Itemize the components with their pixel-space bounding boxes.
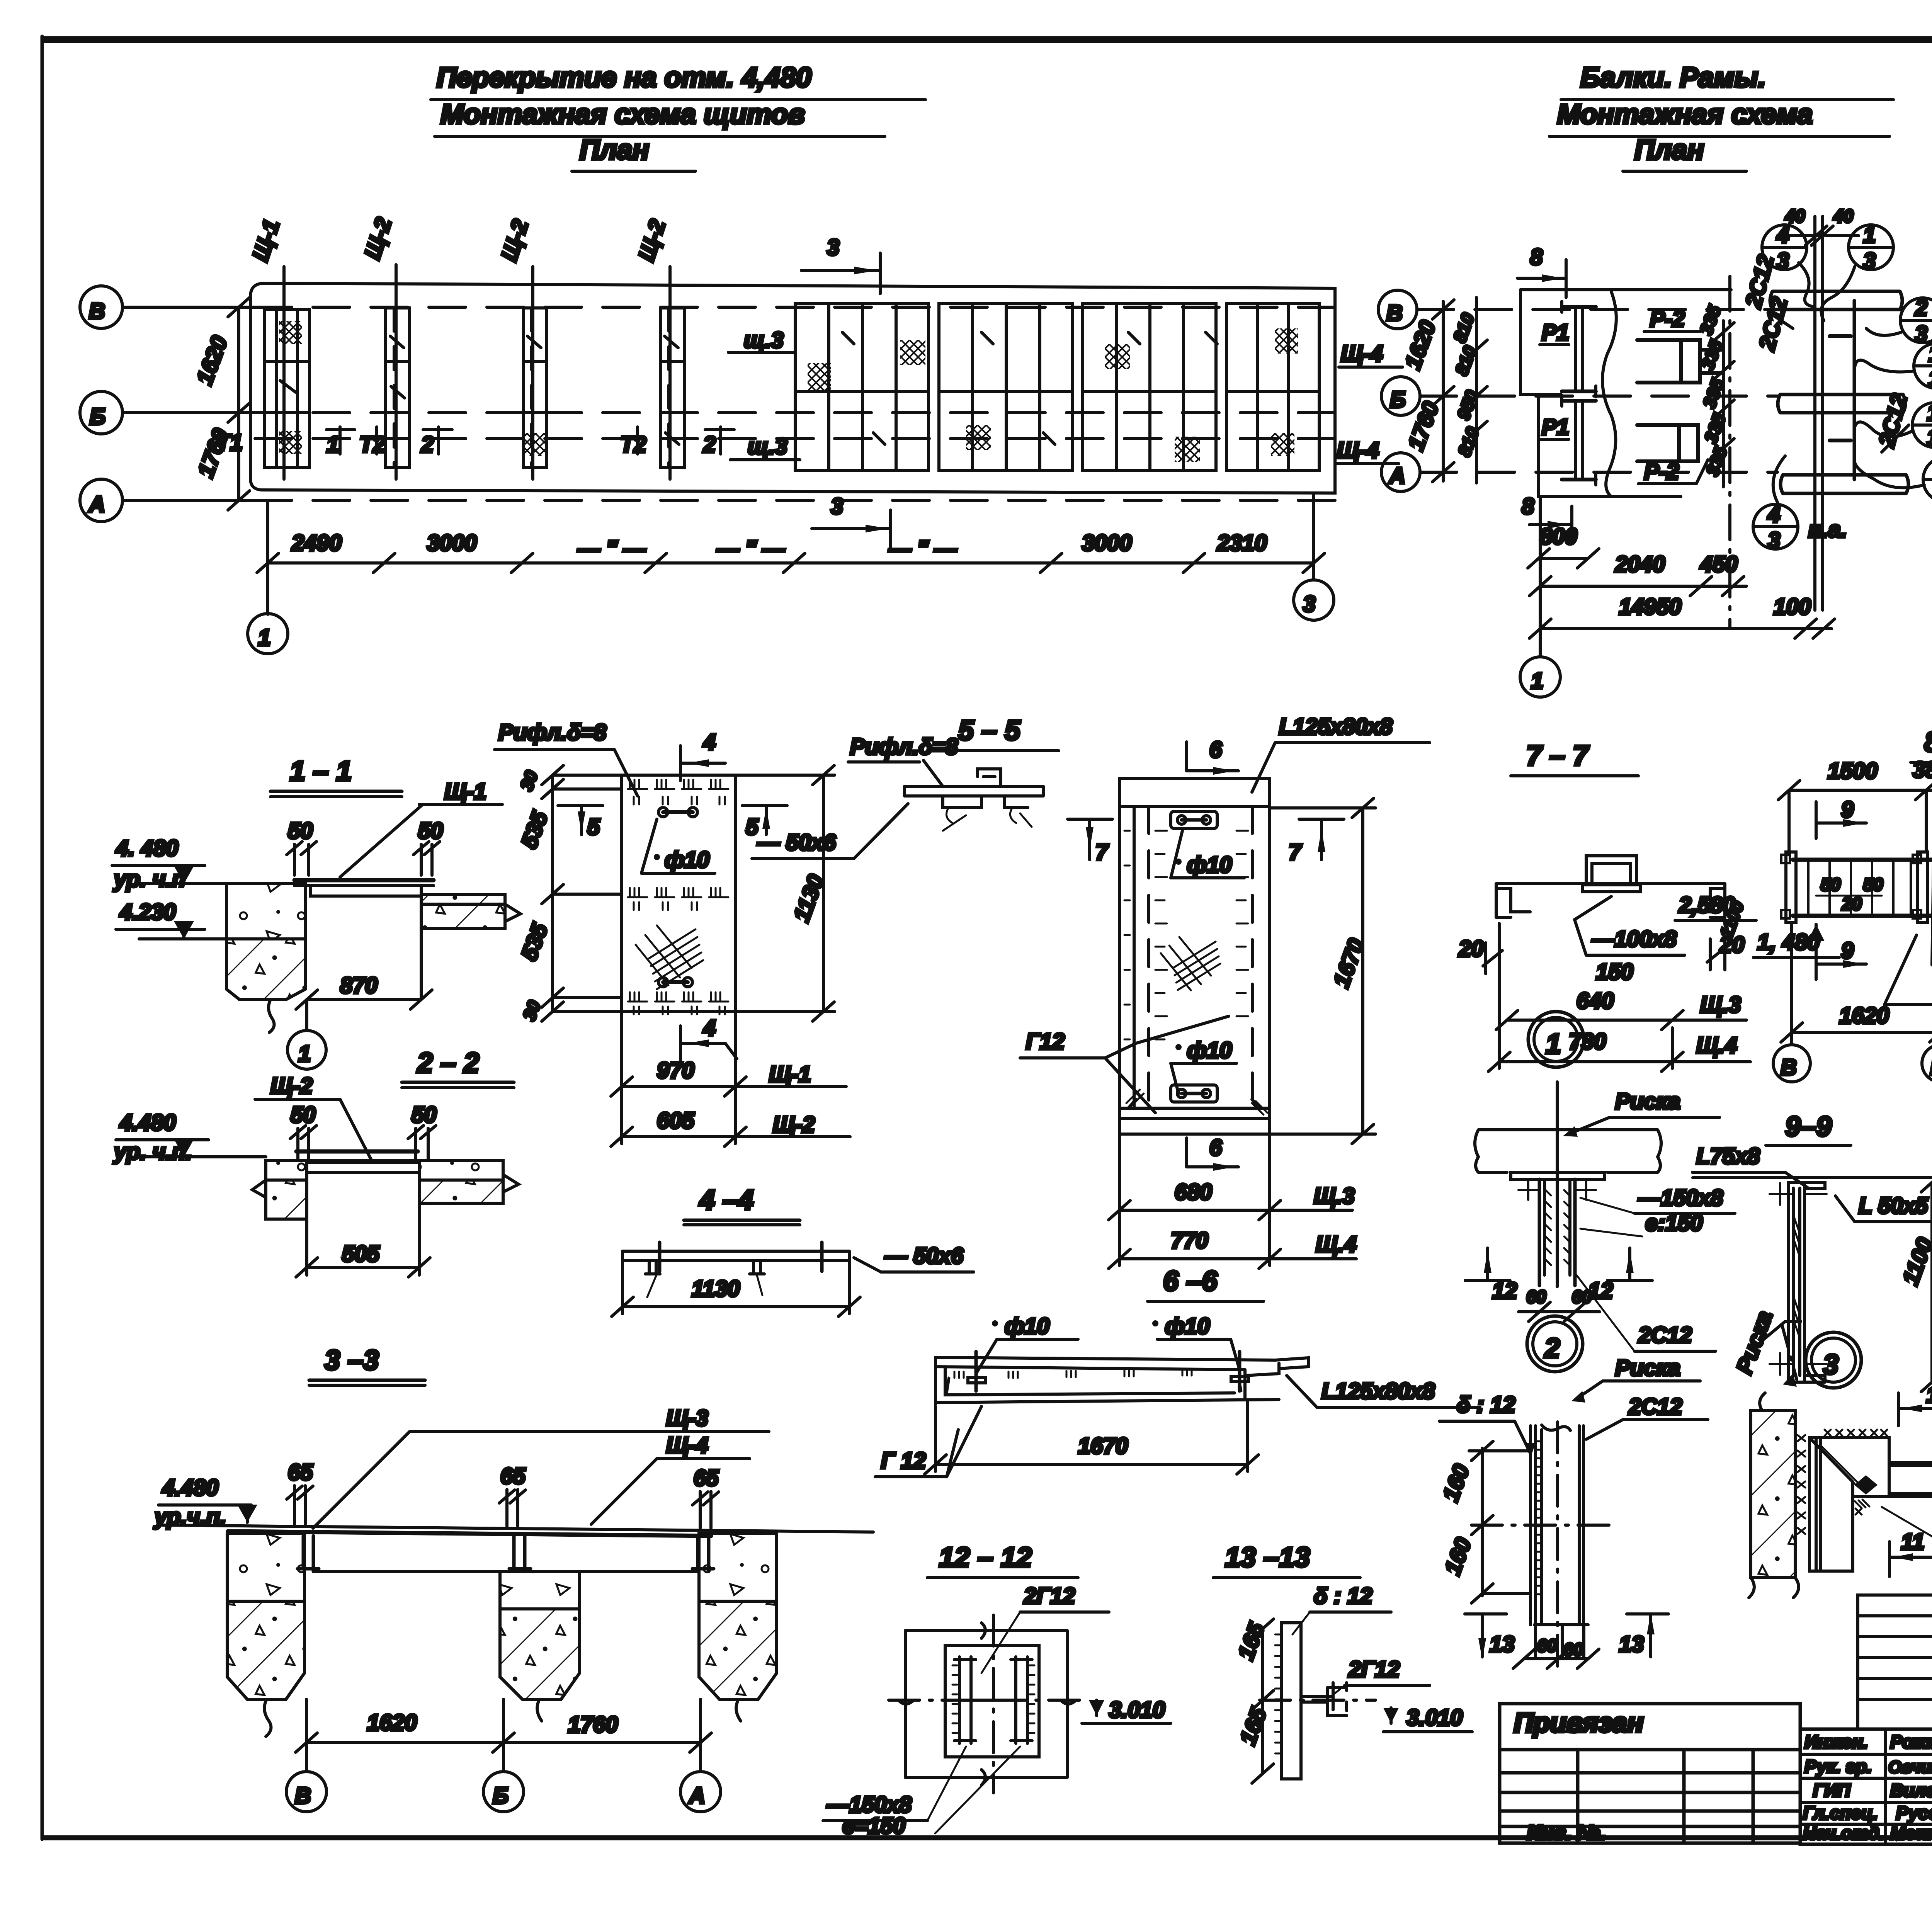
svg-text:165: 165 — [1235, 1704, 1271, 1748]
svg-text:δ : 12: δ : 12 — [1314, 1583, 1372, 1609]
vertical center line — [1556, 1082, 1559, 1287]
svg-text:В: В — [89, 299, 105, 324]
grid circle Б (beams) — [1381, 377, 1420, 415]
wavy break line in plan — [1602, 292, 1616, 497]
svg-text:Щ-4: Щ-4 — [666, 1433, 708, 1458]
svg-text:8: 8 — [1522, 494, 1534, 519]
svg-text:ф10: ф10 — [1005, 1314, 1049, 1339]
svg-text:9: 9 — [1841, 938, 1854, 963]
svg-text:150: 150 — [1596, 959, 1633, 985]
svg-text:Щ.4: Щ.4 — [1696, 1033, 1737, 1058]
svg-text:4: 4 — [703, 1015, 716, 1041]
mid hatch ticks row — [628, 888, 728, 910]
svg-text:4: 4 — [1767, 502, 1780, 527]
beam lines to right — [1889, 1462, 1932, 1496]
svg-text:65: 65 — [288, 1460, 313, 1485]
bottom thick border — [41, 1835, 1932, 1840]
pins — [975, 1352, 978, 1391]
slab (2-2) — [296, 1150, 418, 1154]
right band of plan (Щ-3 panels) — [795, 304, 1319, 471]
fraction circle 1/3 (3) — [1912, 400, 1932, 451]
svg-text:А: А — [688, 1783, 705, 1808]
fraction circle 2/3 — [1900, 296, 1932, 347]
svg-text:δ : 12: δ : 12 — [1457, 1392, 1515, 1417]
svg-text:Г12: Г12 — [1026, 1029, 1065, 1054]
circle А (3-3) — [680, 1772, 721, 1812]
section mark 5 left — [558, 806, 603, 840]
svg-text:2: 2 — [421, 432, 434, 457]
svg-text:535: 535 — [516, 808, 553, 852]
svg-text:Щ-4: Щ-4 — [1341, 341, 1383, 366]
fraction circle 1/3 (4) — [1923, 455, 1932, 506]
section mark 7 left — [1068, 819, 1112, 865]
svg-text:Щ-4: Щ-4 — [1337, 438, 1379, 463]
dashed row line mid — [255, 437, 1335, 440]
svg-text:6: 6 — [1209, 737, 1222, 762]
right angle step — [1245, 1358, 1308, 1398]
svg-text:ур. ч.п: ур. ч.п — [113, 867, 185, 892]
ф10 label right — [1152, 1320, 1158, 1326]
section mark 8 bottom — [1522, 494, 1572, 543]
svg-text:1: 1 — [1929, 341, 1932, 366]
svg-text:505: 505 — [342, 1241, 380, 1267]
top thick border bar — [41, 36, 1932, 43]
svg-text:680: 680 — [1175, 1180, 1212, 1205]
beams plan outline — [1520, 290, 1731, 497]
axis line panel 1 + label Щ-1 — [282, 267, 286, 479]
svg-text:Рожкова: Рожкова — [1890, 1731, 1932, 1752]
svg-text:— ″ —: — ″ — — [888, 536, 957, 561]
svg-text:2490: 2490 — [291, 531, 342, 556]
grid circle А — [80, 479, 122, 522]
3.010 mark — [1089, 1700, 1104, 1716]
svg-text:3: 3 — [1915, 321, 1927, 347]
hatch inside web — [1794, 1217, 1799, 1337]
grid line А — [122, 499, 255, 502]
central bracket — [1586, 856, 1636, 884]
svg-text:4.480: 4.480 — [119, 1110, 176, 1135]
svg-text:1: 1 — [1531, 668, 1543, 694]
svg-text:Рифл.δ=8: Рифл.δ=8 — [498, 720, 607, 745]
svg-text:1100: 1100 — [1898, 1235, 1932, 1288]
svg-text:п.а.: п.а. — [1808, 517, 1847, 542]
section 13 marks — [1465, 1614, 1515, 1660]
hatch clusters in band — [808, 363, 831, 390]
svg-text:1: 1 — [1927, 400, 1932, 425]
svg-text:4. 480: 4. 480 — [116, 836, 178, 861]
floor line — [162, 1525, 873, 1532]
Привязан table — [1500, 1704, 1800, 1844]
svg-text:1130: 1130 — [692, 1276, 740, 1301]
svg-text:3 –3: 3 –3 — [325, 1345, 379, 1376]
svg-text:Щ-1: Щ-1 — [444, 779, 486, 804]
svg-text:3: 3 — [1863, 248, 1876, 274]
bottom chord band — [1781, 475, 1908, 493]
svg-text:В: В — [1781, 1055, 1797, 1080]
svg-text:20: 20 — [1458, 936, 1484, 961]
svg-text:Щ.3: Щ.3 — [1700, 992, 1741, 1017]
svg-text:3: 3 — [827, 235, 839, 260]
ф10 top (Щ3) — [1175, 859, 1182, 865]
post 2 — [509, 1536, 531, 1571]
plan outer rectangle — [250, 283, 1335, 493]
left dim column 30/535/535/30 — [516, 765, 622, 1023]
vertical pins — [658, 1242, 662, 1271]
svg-text:6: 6 — [1209, 1135, 1222, 1160]
svg-text:2040: 2040 — [1615, 552, 1665, 577]
svg-text:810: 810 — [1449, 310, 1478, 345]
middle chord band — [1778, 395, 1905, 413]
top band — [1119, 805, 1270, 808]
svg-text:2: 2 — [703, 432, 716, 457]
svg-text:Перекрытие на отм. 4,480: Перекрытие на отм. 4,480 — [437, 62, 811, 93]
grid line В (beams) — [1417, 308, 1777, 311]
svg-text:— ″ —: — ″ — — [577, 536, 646, 561]
svg-text:5 – 5: 5 – 5 — [958, 715, 1020, 746]
svg-text:Нач.отд.: Нач.отд. — [1803, 1823, 1884, 1843]
svg-text:А: А — [88, 492, 105, 517]
svg-text:50: 50 — [291, 1102, 316, 1127]
svg-text:12 – 12: 12 – 12 — [939, 1542, 1032, 1573]
center dash-dot vertical — [1556, 1422, 1559, 1669]
svg-text:65: 65 — [694, 1466, 719, 1491]
svg-text:3: 3 — [1768, 528, 1780, 553]
svg-text:— ″ —: — ″ — — [716, 536, 785, 561]
TITLES top-left — [431, 62, 925, 171]
center lines — [992, 1615, 995, 1793]
svg-text:100: 100 — [1774, 594, 1811, 619]
fraction circle 4/3 top — [1762, 223, 1807, 274]
section mark 3 top — [801, 235, 880, 294]
svg-text:Б: Б — [1390, 387, 1406, 412]
svg-text:3: 3 — [831, 494, 843, 519]
svg-text:50: 50 — [418, 818, 443, 843]
column vertical double line — [1813, 216, 1816, 610]
slab band — [228, 1531, 711, 1536]
svg-text:Т1: Т1 — [216, 430, 243, 455]
svg-text:А: А — [1388, 463, 1405, 488]
svg-text:4: 4 — [703, 730, 716, 755]
xxx hatch rows on plates — [1820, 1430, 1887, 1515]
svg-text:Щ-1: Щ-1 — [248, 216, 284, 264]
svg-text:L75х8: L75х8 — [1696, 1144, 1760, 1169]
axis lines + circles В Б А — [1790, 923, 1793, 1044]
svg-text:— 50х6: — 50х6 — [884, 1243, 964, 1269]
hatch ticks on channels — [952, 1665, 1034, 1733]
svg-text:4 –4: 4 –4 — [699, 1185, 753, 1216]
svg-text:Р-2: Р-2 — [1650, 306, 1685, 332]
lifting loop top — [658, 808, 697, 817]
svg-text:1760: 1760 — [568, 1712, 618, 1737]
svg-text:13: 13 — [1619, 1632, 1644, 1657]
svg-text:9: 9 — [1841, 797, 1854, 822]
pier 2 (Б) — [500, 1571, 580, 1609]
hatch cross cluster — [636, 925, 703, 989]
335 dims column — [1696, 302, 1734, 487]
concrete wall band — [1751, 1410, 1795, 1578]
svg-text:Вилейкина: Вилейкина — [1890, 1780, 1932, 1801]
svg-text:2Г12: 2Г12 — [1024, 1583, 1075, 1609]
inner plate square — [945, 1645, 1039, 1757]
svg-text:12: 12 — [1588, 1278, 1613, 1303]
svg-text:2310: 2310 — [1217, 531, 1267, 556]
svg-text:2: 2 — [1915, 296, 1927, 321]
svg-text:Руссин: Руссин — [1896, 1803, 1932, 1823]
svg-text:3: 3 — [1303, 592, 1315, 617]
left concrete block (2-2) — [266, 1160, 307, 1180]
panel outer rect — [622, 775, 735, 1012]
dim 1670 right — [1361, 808, 1364, 1134]
svg-text:Щ-2: Щ-2 — [360, 214, 396, 262]
svg-text:4.230: 4.230 — [119, 900, 176, 925]
svg-text:8: 8 — [1530, 245, 1543, 270]
4-4 drawing flat bar — [622, 1251, 849, 1260]
svg-text:640: 640 — [1577, 988, 1614, 1014]
svg-text:50: 50 — [412, 1102, 437, 1127]
left concrete block (1-1) — [226, 884, 305, 939]
svg-text:50: 50 — [288, 818, 313, 843]
svg-text:Р-2: Р-2 — [1644, 459, 1679, 484]
svg-text:20: 20 — [1842, 894, 1862, 914]
lifting loop bottom (Щ3) — [1171, 1085, 1217, 1102]
top line — [1693, 1176, 1932, 1179]
P-2 bracket top — [1637, 340, 1721, 383]
svg-text:4.480: 4.480 — [162, 1475, 218, 1500]
svg-text:380: 380 — [1913, 757, 1932, 782]
svg-text:Р1: Р1 — [1542, 320, 1569, 345]
svg-text:ф10: ф10 — [665, 847, 709, 872]
dash-dot vertical axis right of plan — [1728, 276, 1731, 628]
svg-text:770: 770 — [1171, 1228, 1208, 1253]
svg-text:План: План — [1634, 134, 1704, 165]
svg-text:Щ-2: Щ-2 — [634, 216, 670, 264]
svg-text:L 50х5: L 50х5 — [1859, 1193, 1928, 1218]
svg-text:1620: 1620 — [1839, 1003, 1889, 1028]
node circle 1 — [1528, 1012, 1584, 1067]
7-7 drawing: channel section plan — [1496, 884, 1725, 917]
svg-text:12: 12 — [1492, 1278, 1517, 1303]
svg-text:ф10: ф10 — [1187, 852, 1232, 877]
top slab (node 1) — [1475, 1130, 1661, 1172]
circle Б (3-3) — [483, 1772, 524, 1812]
svg-text:8 –8: 8 –8 — [1924, 727, 1932, 758]
svg-text:Монтажная схема щитов: Монтажная схема щитов — [440, 99, 805, 130]
top hatch ticks row — [628, 780, 728, 804]
svg-text:870: 870 — [340, 973, 378, 998]
svg-text:L125х80х8: L125х80х8 — [1279, 714, 1393, 739]
top chord band — [1770, 291, 1902, 309]
grid circle В — [80, 286, 122, 328]
svg-text:535: 535 — [516, 920, 553, 964]
svg-text:Щ.4: Щ.4 — [1316, 1232, 1357, 1257]
svg-text:3: 3 — [1927, 426, 1932, 451]
svg-text:14950: 14950 — [1619, 594, 1681, 619]
svg-text:7: 7 — [1289, 840, 1302, 865]
end post left — [1786, 852, 1796, 922]
svg-text:4: 4 — [1776, 223, 1789, 248]
grid circle В (beams) — [1378, 290, 1417, 329]
plank band rails — [1793, 858, 1932, 862]
svg-text:2: 2 — [1544, 1333, 1560, 1364]
wavy top break — [1542, 1425, 1570, 1430]
inner frame dashed verticals — [1147, 806, 1150, 1108]
xxx hatch strip on wall face — [1798, 1435, 1805, 1534]
svg-text:5: 5 — [587, 815, 600, 840]
svg-text:11: 11 — [1901, 1529, 1924, 1554]
svg-text:ф10: ф10 — [1187, 1038, 1232, 1063]
fraction circle 4/3 bottom + п.а. — [1753, 502, 1847, 553]
svg-text:800: 800 — [1540, 524, 1577, 549]
svg-text:Т2: Т2 — [620, 432, 646, 457]
svg-text:Б: Б — [90, 404, 105, 429]
svg-text:Б: Б — [1930, 1055, 1932, 1080]
panel outer — [1119, 779, 1270, 1134]
svg-text:щ.3: щ.3 — [744, 328, 784, 353]
post 3 — [692, 1536, 714, 1571]
ф10 label left — [992, 1320, 998, 1326]
axis line panel 3 + label Щ-2 — [531, 267, 534, 479]
vertical plate — [1282, 1623, 1301, 1779]
svg-text:60: 60 — [1526, 1287, 1546, 1307]
squiggle leaders — [1799, 263, 1815, 307]
svg-text:50: 50 — [1863, 874, 1883, 894]
svg-text:2С12: 2С12 — [1628, 1394, 1682, 1419]
hatch strip ticks — [1536, 1441, 1541, 1594]
right concrete block (1-1) — [421, 894, 505, 928]
svg-text:1: 1 — [1546, 1029, 1561, 1059]
svg-text:3: 3 — [1823, 1349, 1838, 1380]
axis circle 1 — [266, 500, 269, 614]
pier 1 (В) — [227, 1534, 304, 1601]
svg-text:3.010: 3.010 — [1109, 1697, 1165, 1723]
svg-text:30: 30 — [516, 768, 542, 793]
node circle 3 — [1806, 1332, 1861, 1388]
svg-text:9–9: 9–9 — [1785, 1111, 1832, 1142]
svg-text:450: 450 — [1700, 552, 1738, 577]
center dash-dot — [1260, 1699, 1376, 1702]
svg-text:Щ-3: Щ-3 — [666, 1406, 708, 1431]
section mark 8 top — [1517, 245, 1566, 298]
svg-text:щ.3: щ.3 — [748, 434, 787, 459]
inner steps — [1520, 290, 1561, 395]
bottom hatch ticks row — [628, 992, 728, 1014]
hatch ticks inside — [946, 1369, 1242, 1393]
svg-text:65: 65 — [500, 1464, 526, 1489]
lifting loop bottom — [658, 978, 692, 987]
section mark 7 right — [1289, 819, 1344, 865]
svg-text:970: 970 — [657, 1058, 694, 1083]
svg-text:3000: 3000 — [1082, 531, 1132, 556]
svg-text:2 – 2: 2 – 2 — [417, 1048, 479, 1078]
svg-text:Инв. №.: Инв. №. — [1527, 1821, 1605, 1844]
axis lines down to circles — [305, 1699, 308, 1772]
axis line panel 2 + label Щ-2 — [395, 265, 398, 479]
svg-text:Риска: Риска — [1615, 1089, 1680, 1114]
svg-text:В: В — [1386, 301, 1403, 326]
small feet — [645, 1260, 764, 1274]
node circle 2 — [1527, 1316, 1583, 1372]
P1 beam bottom (I-beam) — [1562, 395, 1596, 485]
svg-text:50: 50 — [1821, 874, 1841, 894]
svg-text:1: 1 — [1863, 223, 1876, 248]
svg-text:Инжен.: Инжен. — [1804, 1731, 1868, 1752]
panel Щ-2 (3) — [524, 308, 547, 468]
svg-text:1760: 1760 — [1403, 398, 1444, 454]
svg-text:7: 7 — [1095, 840, 1109, 865]
svg-text:Риска: Риска — [1731, 1308, 1777, 1377]
dimension line bottom of plan — [257, 531, 1325, 573]
P1 beam top (I-beam) — [1562, 301, 1596, 397]
grid line Б — [122, 411, 255, 414]
svg-text:1620: 1620 — [367, 1710, 417, 1735]
svg-text:Овчинникова: Овчинникова — [1888, 1758, 1932, 1777]
6-6 beam body — [935, 1357, 1279, 1404]
svg-text:3.010: 3.010 — [1406, 1705, 1463, 1730]
pier 3 (А) — [699, 1534, 777, 1601]
5-5 drawing: flat bar with clamp — [905, 786, 1043, 796]
svg-text:60: 60 — [1537, 1636, 1557, 1656]
signature table — [1800, 1729, 1932, 1844]
svg-text:Мешалкин: Мешалкин — [1890, 1823, 1932, 1843]
svg-text:6 –6: 6 –6 — [1163, 1266, 1218, 1297]
svg-text:Привязан: Привязан — [1514, 1707, 1643, 1738]
svg-text:1620: 1620 — [192, 333, 232, 388]
svg-text:1500: 1500 — [1828, 758, 1878, 784]
svg-text:2С12: 2С12 — [1638, 1323, 1692, 1348]
svg-text:Т2: Т2 — [359, 432, 386, 457]
svg-text:Балки. Рамы.: Балки. Рамы. — [1580, 62, 1766, 93]
svg-text:3: 3 — [1777, 248, 1789, 274]
svg-text:1: 1 — [298, 1041, 311, 1066]
svg-text:40: 40 — [1833, 206, 1854, 226]
svg-text:Щ-2: Щ-2 — [270, 1073, 313, 1099]
lifting loop top (Щ3) — [1171, 811, 1217, 828]
grid circle А (beams) — [1381, 453, 1420, 491]
svg-text:Риска: Риска — [1615, 1355, 1680, 1381]
svg-text:3000: 3000 — [427, 531, 477, 556]
svg-text:13 –13: 13 –13 — [1225, 1542, 1310, 1573]
section 12 marks — [1465, 1248, 1517, 1303]
svg-text:—150х8: —150х8 — [1638, 1185, 1723, 1211]
svg-text:Р1: Р1 — [1542, 415, 1569, 440]
svg-text:Рук. гр.: Рук. гр. — [1804, 1756, 1872, 1777]
section 11 mark bottom — [1889, 1529, 1932, 1576]
axis circle 1 (beams) — [1539, 497, 1542, 657]
axis line panel 4 + label Щ-2 — [668, 267, 672, 479]
vertical channel plate — [1531, 1426, 1583, 1625]
bottom block — [1524, 1625, 1588, 1659]
svg-text:План: План — [580, 134, 649, 165]
ф10 label — [654, 854, 660, 860]
TITLES middle: Балки. Рамы. — [1549, 62, 1893, 171]
outer break square — [905, 1631, 1067, 1777]
svg-text:L125х80х8: L125х80х8 — [1321, 1379, 1435, 1404]
bolts + — [1770, 1183, 1827, 1375]
svg-text:605: 605 — [657, 1108, 695, 1133]
ф10 bottom (Щ3) — [1175, 1044, 1182, 1050]
svg-text:Щ-2: Щ-2 — [773, 1112, 815, 1137]
corner hatch marks — [1126, 1090, 1267, 1115]
svg-text:2Г12: 2Г12 — [1348, 1657, 1400, 1682]
slab (1-1) — [294, 878, 434, 883]
bottom band trapezoid — [1119, 1099, 1270, 1108]
section mark 3 bottom — [812, 494, 891, 551]
svg-text:Щ.3: Щ.3 — [1314, 1184, 1355, 1209]
svg-text:В: В — [295, 1783, 311, 1808]
hatch ticks left — [1275, 1634, 1281, 1753]
svg-text:Гл.спец.: Гл.спец. — [1803, 1803, 1878, 1823]
diamond mark — [1854, 1475, 1878, 1495]
